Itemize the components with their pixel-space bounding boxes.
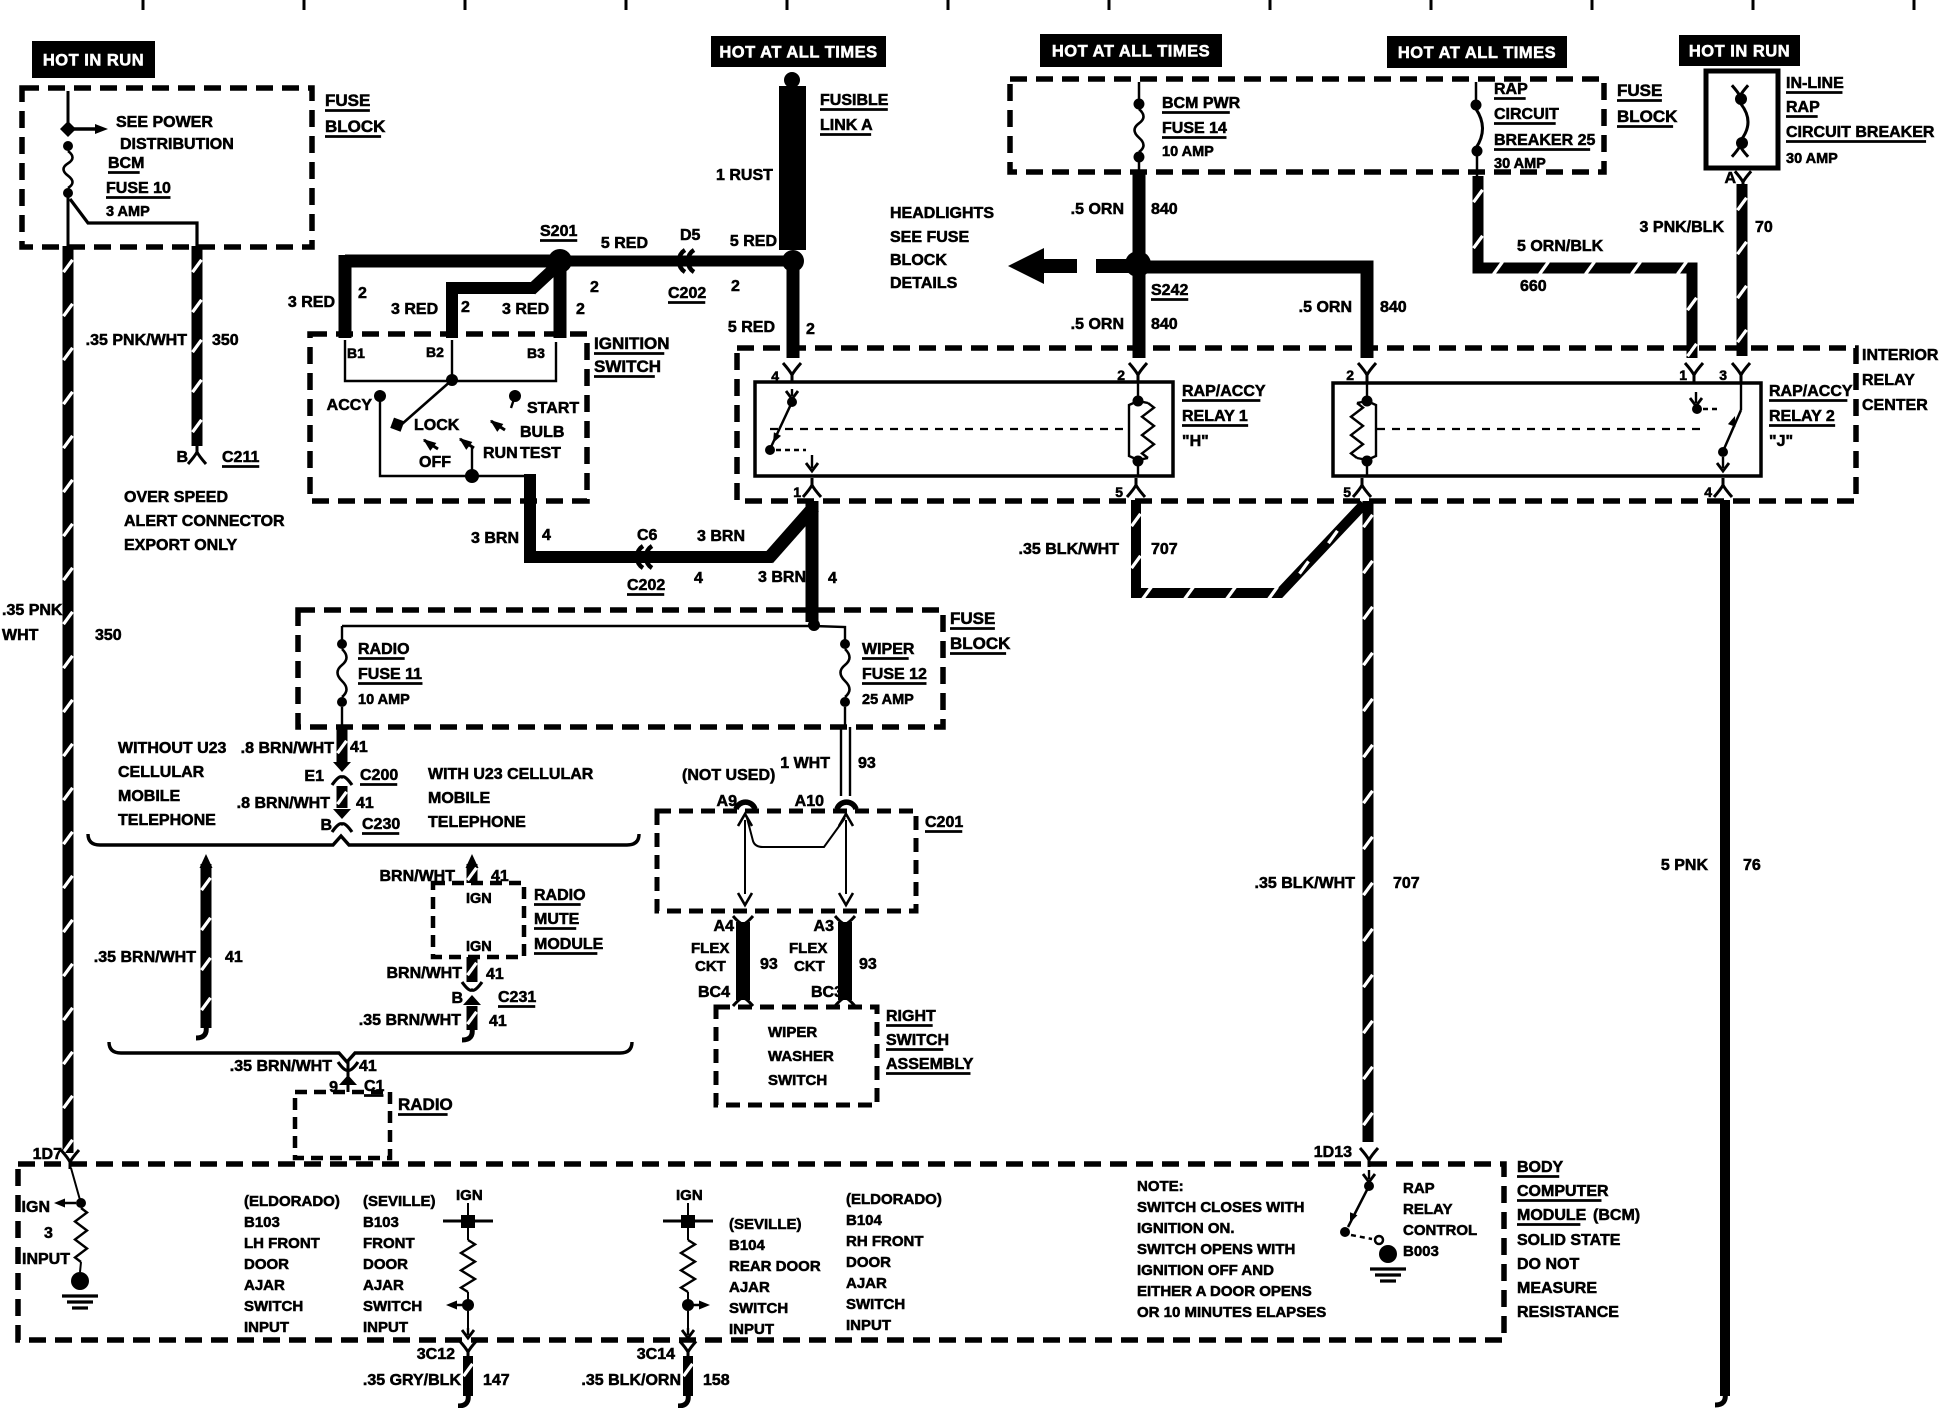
svg-text:BLOCK: BLOCK	[1617, 107, 1678, 126]
svg-text:"H": "H"	[1182, 433, 1209, 450]
svg-text:BREAKER 25: BREAKER 25	[1494, 132, 1595, 149]
svg-text:5 RED: 5 RED	[601, 235, 648, 252]
svg-text:SWITCH OPENS WITH: SWITCH OPENS WITH	[1137, 1241, 1295, 1258]
svg-text:IGN: IGN	[466, 939, 492, 955]
svg-text:3C12: 3C12	[417, 1346, 455, 1363]
svg-text:LH FRONT: LH FRONT	[244, 1235, 320, 1252]
svg-text:4: 4	[771, 368, 779, 384]
svg-text:FUSE: FUSE	[325, 91, 370, 110]
svg-text:2: 2	[1117, 367, 1125, 383]
svg-text:MOBILE: MOBILE	[428, 790, 491, 807]
svg-text:BCM: BCM	[108, 155, 144, 172]
svg-text:FLEX: FLEX	[789, 940, 827, 957]
svg-text:4: 4	[828, 570, 837, 587]
svg-text:EXPORT ONLY: EXPORT ONLY	[124, 537, 238, 554]
svg-text:5 ORN/BLK: 5 ORN/BLK	[1517, 238, 1604, 255]
svg-text:CKT: CKT	[794, 958, 825, 975]
svg-text:.8 BRN/WHT: .8 BRN/WHT	[237, 795, 331, 812]
svg-text:ASSEMBLY: ASSEMBLY	[886, 1056, 974, 1073]
svg-text:WIPER: WIPER	[862, 641, 915, 658]
svg-text:SEE FUSE: SEE FUSE	[890, 229, 969, 246]
svg-text:COMPUTER: COMPUTER	[1517, 1183, 1609, 1200]
svg-text:A9: A9	[717, 793, 738, 810]
svg-text:(ELDORADO): (ELDORADO)	[244, 1193, 340, 1210]
svg-text:HOT IN RUN: HOT IN RUN	[1689, 43, 1790, 61]
svg-text:RELAY: RELAY	[1403, 1201, 1452, 1218]
svg-text:WIPER: WIPER	[768, 1024, 817, 1041]
svg-text:FUSE 11: FUSE 11	[358, 666, 422, 683]
svg-text:SWITCH: SWITCH	[846, 1296, 905, 1313]
svg-text:BLOCK: BLOCK	[325, 117, 386, 136]
svg-text:IN-LINE: IN-LINE	[1786, 75, 1844, 92]
svg-text:5 PNK: 5 PNK	[1661, 857, 1709, 874]
svg-text:BC4: BC4	[698, 984, 730, 1001]
svg-text:C202: C202	[627, 577, 665, 594]
svg-text:SWITCH: SWITCH	[729, 1300, 788, 1317]
svg-text:2: 2	[358, 285, 367, 302]
svg-text:IGNITION: IGNITION	[594, 334, 670, 353]
svg-text:840: 840	[1151, 316, 1178, 333]
svg-text:2: 2	[1346, 367, 1354, 383]
svg-text:NOTE:: NOTE:	[1137, 1178, 1184, 1195]
svg-text:SEE POWER: SEE POWER	[116, 114, 213, 131]
svg-text:OFF: OFF	[419, 454, 451, 471]
svg-text:CENTER: CENTER	[1862, 397, 1928, 414]
svg-text:4: 4	[694, 570, 703, 587]
svg-text:93: 93	[760, 956, 778, 973]
svg-text:.35 PNK/: .35 PNK/	[2, 602, 67, 619]
svg-text:WASHER: WASHER	[768, 1048, 834, 1065]
svg-text:START: START	[527, 400, 579, 417]
svg-text:FUSE 10: FUSE 10	[106, 180, 171, 197]
svg-text:1 RUST: 1 RUST	[716, 167, 773, 184]
svg-text:INPUT: INPUT	[244, 1319, 289, 1336]
svg-text:2: 2	[576, 301, 585, 318]
svg-text:.5 ORN: .5 ORN	[1299, 299, 1352, 316]
svg-text:ACCY: ACCY	[327, 397, 373, 414]
svg-text:.35 BRN/WHT: .35 BRN/WHT	[230, 1058, 332, 1075]
svg-text:B2: B2	[426, 344, 444, 360]
svg-text:2: 2	[731, 278, 740, 295]
svg-text:RAP: RAP	[1403, 1180, 1435, 1197]
svg-text:CKT: CKT	[695, 958, 726, 975]
svg-text:DOOR: DOOR	[846, 1254, 891, 1271]
svg-text:B104: B104	[729, 1237, 766, 1254]
svg-text:3C14: 3C14	[637, 1346, 675, 1363]
svg-text:SWITCH: SWITCH	[768, 1072, 827, 1089]
svg-text:INPUT: INPUT	[22, 1251, 70, 1268]
svg-text:RAP: RAP	[1494, 81, 1528, 98]
svg-text:HOT AT ALL TIMES: HOT AT ALL TIMES	[719, 44, 877, 62]
svg-text:HOT AT ALL TIMES: HOT AT ALL TIMES	[1398, 44, 1556, 62]
svg-text:IGNITION OFF AND: IGNITION OFF AND	[1137, 1262, 1274, 1279]
svg-text:LINK A: LINK A	[820, 117, 873, 134]
svg-text:REAR DOOR: REAR DOOR	[729, 1258, 821, 1275]
svg-text:(NOT USED): (NOT USED)	[682, 767, 775, 784]
svg-text:IGN: IGN	[676, 1187, 703, 1204]
svg-text:EITHER A DOOR OPENS: EITHER A DOOR OPENS	[1137, 1283, 1312, 1300]
svg-text:DISTRIBUTION: DISTRIBUTION	[120, 136, 234, 153]
svg-text:MODULE: MODULE	[534, 936, 604, 953]
svg-text:B103: B103	[363, 1214, 399, 1231]
svg-text:IGN: IGN	[456, 1187, 483, 1204]
svg-text:SWITCH: SWITCH	[363, 1298, 422, 1315]
svg-text:INPUT: INPUT	[846, 1317, 891, 1334]
svg-text:1: 1	[1679, 367, 1687, 383]
svg-text:AJAR: AJAR	[244, 1277, 285, 1294]
svg-text:3: 3	[1719, 367, 1727, 383]
svg-text:FLEX: FLEX	[691, 940, 729, 957]
svg-text:A3: A3	[814, 918, 835, 935]
svg-text:3 RED: 3 RED	[288, 294, 335, 311]
svg-text:D5: D5	[680, 227, 701, 244]
svg-text:"J": "J"	[1769, 433, 1793, 450]
svg-text:SWITCH: SWITCH	[244, 1298, 303, 1315]
svg-text:41: 41	[350, 739, 368, 756]
svg-text:C200: C200	[360, 767, 398, 784]
svg-text:AJAR: AJAR	[846, 1275, 887, 1292]
svg-text:3 AMP: 3 AMP	[106, 204, 150, 220]
svg-text:1 WHT: 1 WHT	[780, 755, 830, 772]
svg-text:C211: C211	[222, 449, 259, 466]
svg-text:DOOR: DOOR	[363, 1256, 408, 1273]
svg-text:CIRCUIT BREAKER: CIRCUIT BREAKER	[1786, 124, 1935, 141]
svg-text:HOT AT ALL TIMES: HOT AT ALL TIMES	[1052, 43, 1210, 61]
svg-text:C6: C6	[637, 527, 658, 544]
svg-text:41: 41	[356, 795, 374, 812]
svg-text:.5 ORN: .5 ORN	[1071, 316, 1124, 333]
svg-text:3 BRN: 3 BRN	[471, 530, 519, 547]
svg-text:BC3: BC3	[811, 984, 843, 1001]
svg-text:.35 PNK/WHT: .35 PNK/WHT	[86, 332, 188, 349]
svg-text:DO NOT: DO NOT	[1517, 1256, 1579, 1273]
svg-text:158: 158	[703, 1372, 730, 1389]
svg-text:.35 BLK/WHT: .35 BLK/WHT	[1255, 875, 1356, 892]
svg-text:AJAR: AJAR	[729, 1279, 770, 1296]
svg-text:BLOCK: BLOCK	[890, 252, 947, 269]
svg-text:SWITCH CLOSES WITH: SWITCH CLOSES WITH	[1137, 1199, 1305, 1216]
svg-text:RH FRONT: RH FRONT	[846, 1233, 924, 1250]
svg-text:5: 5	[1115, 484, 1123, 500]
svg-text:5 RED: 5 RED	[728, 319, 775, 336]
svg-text:CONTROL: CONTROL	[1403, 1222, 1477, 1239]
svg-text:DOOR: DOOR	[244, 1256, 289, 1273]
svg-text:660: 660	[1520, 278, 1547, 295]
svg-text:(SEVILLE): (SEVILLE)	[729, 1216, 802, 1233]
svg-text:A10: A10	[795, 793, 824, 810]
svg-text:BCM PWR: BCM PWR	[1162, 95, 1241, 112]
svg-text:DETAILS: DETAILS	[890, 275, 958, 292]
svg-text:SWITCH: SWITCH	[594, 357, 661, 376]
svg-text:MOBILE: MOBILE	[118, 788, 181, 805]
svg-text:TEST: TEST	[520, 445, 561, 462]
svg-text:B104: B104	[846, 1212, 883, 1229]
svg-text:BODY: BODY	[1517, 1159, 1564, 1176]
svg-text:BLOCK: BLOCK	[950, 634, 1011, 653]
svg-text:SWITCH: SWITCH	[886, 1032, 949, 1049]
svg-text:.35 GRY/BLK: .35 GRY/BLK	[363, 1372, 462, 1389]
svg-text:350: 350	[212, 332, 239, 349]
svg-text:S201: S201	[540, 223, 577, 240]
svg-text:707: 707	[1393, 875, 1420, 892]
svg-text:RAP/ACCY: RAP/ACCY	[1182, 383, 1266, 400]
svg-text:FUSE 12: FUSE 12	[862, 666, 927, 683]
svg-text:RAP: RAP	[1786, 99, 1820, 116]
svg-text:B003: B003	[1403, 1243, 1439, 1260]
svg-text:ALERT CONNECTOR: ALERT CONNECTOR	[124, 513, 285, 530]
svg-text:WITHOUT U23: WITHOUT U23	[118, 740, 227, 757]
svg-text:3 RED: 3 RED	[502, 301, 549, 318]
svg-text:WITH U23 CELLULAR: WITH U23 CELLULAR	[428, 766, 594, 783]
svg-text:3 BRN: 3 BRN	[758, 569, 806, 586]
svg-text:HEADLIGHTS: HEADLIGHTS	[890, 205, 994, 222]
svg-text:RADIO: RADIO	[358, 641, 410, 658]
svg-text:2: 2	[590, 279, 599, 296]
svg-text:MODULE: MODULE	[1517, 1207, 1587, 1224]
svg-text:76: 76	[1743, 857, 1761, 874]
svg-text:3 RED: 3 RED	[391, 301, 438, 318]
svg-text:RESISTANCE: RESISTANCE	[1517, 1304, 1619, 1321]
svg-text:INTERIOR: INTERIOR	[1862, 347, 1939, 364]
svg-text:(SEVILLE): (SEVILLE)	[363, 1193, 436, 1210]
svg-text:OVER SPEED: OVER SPEED	[124, 489, 228, 506]
svg-text:FUSIBLE: FUSIBLE	[820, 92, 889, 109]
svg-text:.35 BLK/ORN: .35 BLK/ORN	[581, 1372, 681, 1389]
svg-text:840: 840	[1380, 299, 1407, 316]
svg-text:25 AMP: 25 AMP	[862, 692, 914, 708]
svg-text:IGNITION ON.: IGNITION ON.	[1137, 1220, 1235, 1237]
svg-text:10 AMP: 10 AMP	[1162, 144, 1214, 160]
svg-text:LOCK: LOCK	[414, 417, 460, 434]
svg-text:WHT: WHT	[2, 627, 39, 644]
svg-text:B: B	[176, 449, 188, 466]
svg-text:RELAY 2: RELAY 2	[1769, 408, 1835, 425]
svg-text:RADIO: RADIO	[398, 1095, 453, 1114]
svg-text:RELAY: RELAY	[1862, 372, 1915, 389]
svg-text:B: B	[451, 990, 463, 1007]
svg-text:10 AMP: 10 AMP	[358, 692, 410, 708]
svg-text:FRONT: FRONT	[363, 1235, 415, 1252]
svg-text:A4: A4	[714, 918, 735, 935]
svg-text:IGN: IGN	[466, 891, 492, 907]
svg-text:S242: S242	[1151, 282, 1188, 299]
svg-text:840: 840	[1151, 201, 1178, 218]
svg-text:RADIO: RADIO	[534, 887, 586, 904]
svg-text:(BCM): (BCM)	[1593, 1207, 1640, 1224]
svg-text:(ELDORADO): (ELDORADO)	[846, 1191, 942, 1208]
svg-text:FUSE: FUSE	[950, 609, 995, 628]
svg-text:B103: B103	[244, 1214, 280, 1231]
svg-text:TELEPHONE: TELEPHONE	[428, 814, 526, 831]
svg-text:.35 BLK/WHT: .35 BLK/WHT	[1019, 541, 1120, 558]
svg-text:BULB: BULB	[520, 424, 564, 441]
svg-text:93: 93	[858, 755, 876, 772]
svg-text:FUSE: FUSE	[1617, 81, 1662, 100]
svg-text:RAP/ACCY: RAP/ACCY	[1769, 383, 1853, 400]
svg-text:HOT IN RUN: HOT IN RUN	[43, 52, 144, 70]
svg-text:.35 BRN/WHT: .35 BRN/WHT	[359, 1012, 461, 1029]
svg-text:C201: C201	[925, 814, 963, 831]
svg-text:E1: E1	[304, 768, 324, 785]
svg-text:.35 BRN/WHT: .35 BRN/WHT	[94, 949, 196, 966]
svg-text:OR 10 MINUTES ELAPSES: OR 10 MINUTES ELAPSES	[1137, 1304, 1326, 1321]
svg-text:70: 70	[1755, 219, 1773, 236]
svg-text:41: 41	[225, 949, 243, 966]
svg-text:.8 BRN/WHT: .8 BRN/WHT	[241, 740, 335, 757]
svg-text:2: 2	[806, 321, 815, 338]
svg-text:CIRCUIT: CIRCUIT	[1494, 106, 1559, 123]
svg-text:30 AMP: 30 AMP	[1494, 156, 1546, 172]
svg-text:INPUT: INPUT	[363, 1319, 408, 1336]
svg-text:1D7: 1D7	[33, 1146, 62, 1163]
svg-text:41: 41	[486, 966, 504, 983]
svg-text:BRN/WHT: BRN/WHT	[386, 965, 462, 982]
svg-text:RUN: RUN	[483, 445, 518, 462]
svg-text:AJAR: AJAR	[363, 1277, 404, 1294]
svg-text:.5 ORN: .5 ORN	[1071, 201, 1124, 218]
svg-text:5 RED: 5 RED	[730, 233, 777, 250]
svg-text:707: 707	[1151, 541, 1178, 558]
svg-text:3 PNK/BLK: 3 PNK/BLK	[1640, 219, 1725, 236]
svg-text:FUSE 14: FUSE 14	[1162, 120, 1227, 137]
svg-text:IGN: IGN	[22, 1199, 50, 1216]
svg-text:RELAY 1: RELAY 1	[1182, 408, 1248, 425]
svg-text:2: 2	[461, 299, 470, 316]
svg-text:93: 93	[859, 956, 877, 973]
svg-text:4: 4	[1704, 484, 1712, 500]
svg-text:C202: C202	[668, 285, 706, 302]
svg-text:41: 41	[489, 1013, 507, 1030]
svg-text:41: 41	[359, 1058, 377, 1075]
svg-text:4: 4	[542, 527, 551, 544]
svg-text:INPUT: INPUT	[729, 1321, 774, 1338]
svg-text:RIGHT: RIGHT	[886, 1008, 936, 1025]
svg-text:B1: B1	[347, 345, 365, 361]
svg-text:B: B	[320, 817, 332, 834]
svg-text:SOLID STATE: SOLID STATE	[1517, 1232, 1621, 1249]
svg-text:TELEPHONE: TELEPHONE	[118, 812, 216, 829]
svg-text:30 AMP: 30 AMP	[1786, 151, 1838, 167]
svg-text:5: 5	[1343, 484, 1351, 500]
svg-text:3: 3	[44, 1225, 53, 1242]
svg-text:C230: C230	[362, 816, 400, 833]
svg-text:C231: C231	[498, 989, 536, 1006]
svg-text:MEASURE: MEASURE	[1517, 1280, 1597, 1297]
svg-text:B3: B3	[527, 345, 545, 361]
svg-text:3 BRN: 3 BRN	[697, 528, 745, 545]
svg-text:147: 147	[483, 1372, 510, 1389]
svg-text:350: 350	[95, 627, 122, 644]
svg-text:1: 1	[793, 484, 801, 500]
svg-text:CELLULAR: CELLULAR	[118, 764, 205, 781]
svg-text:MUTE: MUTE	[534, 911, 580, 928]
svg-text:1D13: 1D13	[1314, 1144, 1352, 1161]
